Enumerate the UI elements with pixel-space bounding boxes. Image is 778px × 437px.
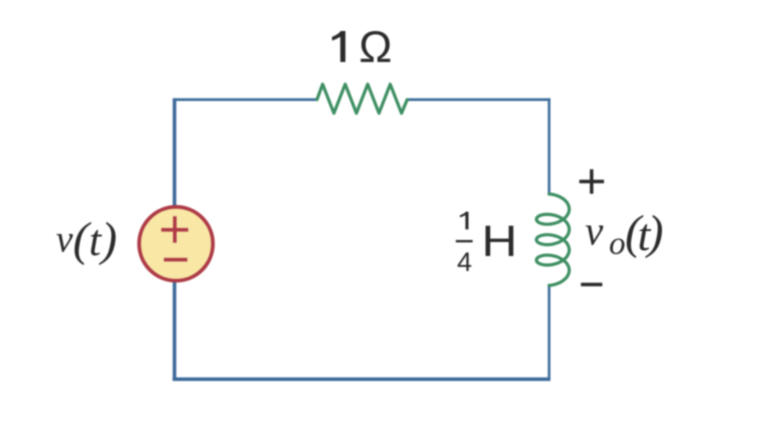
wire top-right segment: [407, 98, 550, 101]
wire bottom: [173, 377, 551, 381]
wire right upper: [548, 98, 551, 195]
voltage source V1 circle: [139, 207, 213, 281]
svg-text:H: H: [482, 217, 518, 266]
svg-text:4: 4: [457, 247, 472, 277]
wire left upper: [173, 98, 177, 207]
svg-text:(t): (t): [73, 213, 117, 266]
fraction numerator 1: [460, 212, 469, 230]
wire right lower: [548, 285, 551, 379]
minus polarity label for vo(t): [581, 283, 602, 287]
inductor L1 (1/4 H) coil: [536, 194, 569, 285]
svg-text:v: v: [56, 219, 73, 261]
resistor R1 (1 ohm) zigzag: [317, 84, 407, 113]
fraction bar: [456, 240, 473, 242]
plus polarity label for vo(t): [579, 169, 604, 194]
source V1 plus polarity mark: [161, 216, 188, 243]
wire left lower: [173, 281, 177, 381]
svg-text:o: o: [609, 226, 626, 262]
value label 1/4 H fraction: [456, 212, 518, 277]
svg-text:): ): [645, 206, 664, 259]
svg-text:Ω: Ω: [359, 23, 392, 72]
svg-text:v: v: [585, 207, 604, 253]
value label 1 ohm: digit 1: [332, 31, 345, 62]
wire top-left segment: [173, 98, 317, 101]
source V1 minus polarity mark: [164, 258, 187, 262]
